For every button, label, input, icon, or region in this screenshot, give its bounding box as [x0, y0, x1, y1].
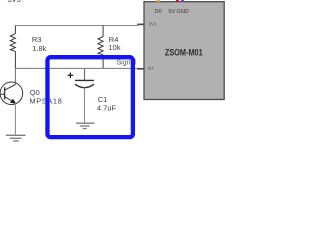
svg-text:3V3: 3V3	[149, 22, 157, 27]
svg-text:3V3: 3V3	[8, 0, 21, 4]
ground (C1)	[76, 123, 95, 128]
plus sign of C1	[68, 73, 74, 79]
svg-text:ZSOM-M01: ZSOM-M01	[165, 48, 203, 58]
wire 3V3 net: R3 top to module 3V3 pin	[15, 25, 138, 27]
transistor Q0 MPSA18	[0, 82, 23, 105]
wire emitter to ground	[14, 103, 16, 136]
svg-text:GND: GND	[177, 9, 189, 15]
pin D0 wire stub (orange, cut off at top)	[157, 0, 160, 2]
wire Signal net: across to module D7 pin	[15, 67, 138, 69]
wire C1 to ground	[84, 88, 86, 124]
module U1 ZSOM-M01 body	[144, 2, 224, 100]
resistor R4	[98, 26, 103, 69]
resistor R3	[10, 26, 15, 69]
svg-text:R3: R3	[32, 35, 42, 44]
capacitor C1 lead from Signal net	[84, 68, 86, 80]
module pin 3V3 stub	[137, 23, 144, 25]
pin 5V wire stub (red, cut off at top)	[176, 0, 179, 2]
svg-text:10k: 10k	[109, 43, 121, 52]
wire collector drop from Signal net to Q0	[14, 68, 16, 84]
svg-text:D0: D0	[155, 9, 162, 15]
ground (Q0 emitter)	[6, 135, 26, 141]
emitter arrowhead	[10, 99, 16, 104]
capacitor C1	[75, 80, 94, 87]
pin GND wire stub (purple, cut off at top)	[181, 0, 184, 2]
svg-text:D7: D7	[148, 66, 154, 71]
svg-text:4.7uF: 4.7uF	[97, 103, 117, 112]
module pin D7 stub	[137, 68, 144, 70]
svg-text:Q0: Q0	[30, 88, 40, 97]
svg-text:5V: 5V	[168, 9, 175, 15]
highlight box (blue annotation rectangle)	[47, 57, 132, 137]
svg-text:1.8k: 1.8k	[32, 44, 46, 53]
